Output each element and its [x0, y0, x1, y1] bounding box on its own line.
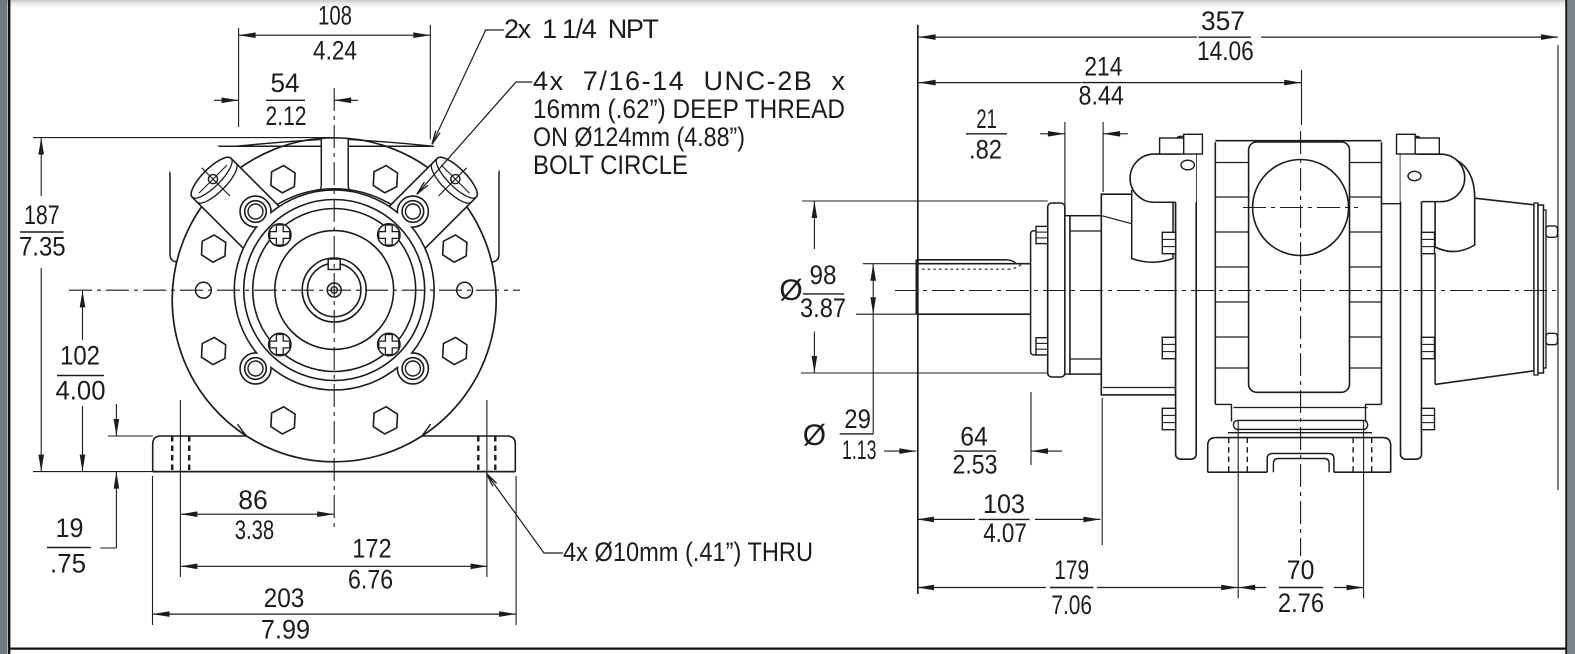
svg-text:2.53: 2.53 [953, 450, 998, 480]
svg-text:54: 54 [271, 68, 300, 98]
svg-text:.82: .82 [969, 135, 1002, 165]
svg-text:214: 214 [1084, 51, 1122, 81]
svg-text:4x Ø10mm (.41”) THRU: 4x Ø10mm (.41”) THRU [563, 537, 813, 567]
svg-text:203: 203 [264, 583, 305, 613]
svg-text:179: 179 [1054, 555, 1089, 585]
svg-text:2.76: 2.76 [1278, 588, 1324, 618]
svg-text:103: 103 [983, 489, 1025, 519]
svg-text:16mm (.62”) DEEP THREAD: 16mm (.62”) DEEP THREAD [533, 94, 845, 124]
svg-text:19: 19 [56, 513, 84, 543]
svg-text:Ø: Ø [803, 419, 826, 452]
svg-text:7.35: 7.35 [19, 231, 66, 261]
svg-text:64: 64 [960, 422, 988, 452]
svg-text:BOLT CIRCLE: BOLT CIRCLE [533, 150, 688, 180]
svg-text:187: 187 [24, 200, 60, 230]
svg-text:29: 29 [844, 404, 871, 434]
svg-text:4.24: 4.24 [313, 36, 357, 66]
svg-text:4.00: 4.00 [56, 376, 106, 406]
svg-text:102: 102 [60, 341, 100, 371]
svg-text:86: 86 [238, 485, 268, 515]
svg-text:357: 357 [1201, 6, 1245, 36]
svg-text:3.87: 3.87 [800, 293, 846, 323]
svg-text:7.99: 7.99 [261, 615, 310, 645]
svg-text:6.76: 6.76 [348, 565, 393, 595]
svg-text:1.13: 1.13 [842, 435, 876, 465]
svg-text:98: 98 [810, 260, 837, 290]
svg-text:70: 70 [1287, 555, 1315, 585]
svg-text:3.38: 3.38 [235, 515, 274, 545]
svg-text:2.12: 2.12 [266, 101, 307, 131]
svg-text:ON Ø124mm (4.88”): ON Ø124mm (4.88”) [533, 122, 745, 152]
svg-text:14.06: 14.06 [1197, 36, 1254, 66]
svg-text:.75: .75 [50, 549, 86, 579]
svg-text:8.44: 8.44 [1079, 81, 1124, 111]
svg-text:4.07: 4.07 [983, 518, 1027, 548]
svg-text:7.06: 7.06 [1051, 590, 1092, 620]
svg-text:21: 21 [976, 104, 996, 134]
svg-text:2x 1 1/4 NPT: 2x 1 1/4 NPT [504, 14, 659, 44]
svg-text:4x 7/16-14 UNC-2B x: 4x 7/16-14 UNC-2B x [533, 66, 846, 96]
svg-text:108: 108 [318, 1, 352, 31]
svg-text:172: 172 [352, 534, 391, 564]
